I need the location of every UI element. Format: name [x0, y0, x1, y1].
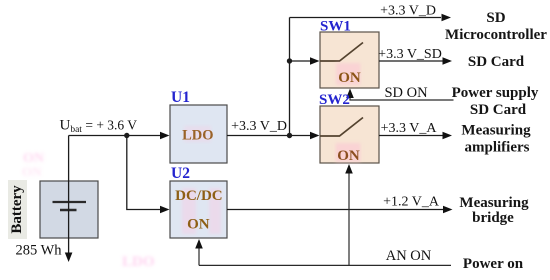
junction dot on Ubat wire: [124, 133, 129, 138]
svg-text:+1.2 V_A: +1.2 V_A: [383, 195, 440, 210]
svg-text:Measuring: Measuring: [461, 123, 531, 139]
svg-text:ON: ON: [187, 217, 210, 233]
svg-text:Battery: Battery: [9, 185, 25, 234]
wire SW1 output +3.3V_SD: [379, 60, 443, 62]
svg-text:Microcontroller: Microcontroller: [445, 27, 547, 43]
switch SW2 box: [320, 106, 379, 163]
switch SW2 contact: [320, 118, 363, 137]
arrow into U2: [160, 206, 170, 214]
svg-text:amplifiers: amplifiers: [465, 140, 530, 156]
arrow AN ON into SW2: [345, 164, 353, 174]
arrow SD ON into SW1: [346, 89, 354, 99]
svg-text:SD: SD: [486, 10, 505, 26]
battery symbol plates: [53, 202, 87, 210]
svg-text:+3.3 V_D: +3.3 V_D: [380, 4, 436, 19]
svg-text:ON: ON: [22, 164, 42, 179]
label SD Microcontroller: [445, 10, 547, 43]
arrow to SD microcontroller: [442, 14, 452, 22]
wire battery vertical: [68, 136, 70, 254]
svg-text:U2: U2: [171, 165, 190, 182]
arrow battery return down: [65, 253, 73, 263]
wire AN ON horizontal: [199, 264, 451, 266]
ghost highlight behind SW2 ON: [336, 143, 361, 162]
svg-text:DC/DC: DC/DC: [175, 188, 223, 204]
svg-text:AN ON: AN ON: [386, 248, 432, 264]
arrow into SW1: [310, 57, 320, 65]
battery label background: [8, 180, 27, 239]
wire branch to U2: [127, 136, 162, 210]
svg-text:285 Wh: 285 Wh: [16, 243, 63, 259]
svg-text:SD ON: SD ON: [384, 85, 428, 101]
label Measuring amplifiers: [461, 123, 531, 156]
label Measuring bridge: [459, 195, 529, 226]
ghost highlight behind LDO: [184, 126, 211, 142]
regulator U1 box: [170, 105, 227, 163]
battery box B1: [40, 181, 98, 238]
wire SW1 input: [290, 60, 313, 62]
arrow to measuring amplifiers: [443, 132, 453, 140]
arrow into U1: [160, 132, 170, 140]
svg-text:SW1: SW1: [320, 19, 351, 35]
svg-text:LDO: LDO: [182, 128, 213, 144]
arrow into SW2: [310, 132, 320, 140]
svg-text:+3.3 V_A: +3.3 V_A: [381, 121, 438, 136]
svg-text:Measuring: Measuring: [459, 195, 529, 211]
svg-text:+3.3 V_SD: +3.3 V_SD: [378, 47, 442, 62]
svg-text:Power supply: Power supply: [452, 85, 539, 101]
svg-text:SD Card: SD Card: [470, 102, 527, 118]
label Power supply SD Card: [452, 85, 539, 118]
junction dot SW1 branch: [287, 58, 292, 63]
junction dot at +3.3V_D node: [287, 133, 292, 138]
svg-text:U1: U1: [171, 89, 190, 106]
arrow to SD card: [443, 57, 453, 65]
converter U2 box: [170, 181, 227, 238]
svg-text:ON: ON: [337, 148, 360, 164]
wire SW2 output +3.3V_A: [379, 135, 443, 137]
wire AN ON riser to U2: [198, 245, 200, 265]
svg-text:Ubat = + 3.6 V: Ubat = + 3.6 V: [60, 118, 138, 136]
wire U2 output +1.2V_A: [227, 209, 443, 211]
svg-text:LDO: LDO: [122, 254, 155, 270]
svg-text:ON: ON: [338, 70, 361, 86]
svg-text:bridge: bridge: [472, 210, 514, 226]
wire top to SD microcontroller: [290, 17, 442, 19]
wire SD ON: [350, 93, 454, 100]
wire AN ON riser to SW2: [348, 169, 350, 265]
svg-text:+3.3 V_D: +3.3 V_D: [231, 119, 287, 134]
switch SW1 contact: [320, 43, 363, 62]
svg-text:SD Card: SD Card: [468, 54, 525, 70]
arrow to measuring bridge: [443, 206, 453, 214]
arrow AN ON into U2: [195, 239, 203, 249]
ghost highlight inside U2: [182, 188, 221, 234]
svg-text:SW2: SW2: [319, 92, 350, 108]
svg-text:Power on: Power on: [463, 256, 524, 272]
wire Ubat horizontal: [69, 135, 162, 137]
ghost highlight behind SW1 ON: [336, 63, 361, 85]
switch SW1 box: [320, 32, 379, 88]
wire +3.3V_D vertical riser: [289, 18, 291, 136]
wire U1 output +3.3V_D: [227, 135, 312, 137]
